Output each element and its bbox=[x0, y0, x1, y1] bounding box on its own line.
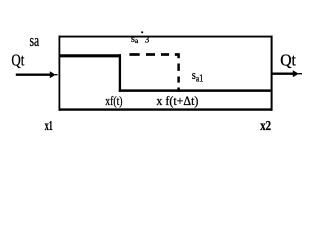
svg-text:Qt: Qt bbox=[11, 51, 24, 70]
dashed vertical line at xf(t+dt) bbox=[177, 53, 180, 91]
svg-text:Qt: Qt bbox=[280, 51, 296, 70]
svg-text:sa: sa bbox=[131, 34, 139, 45]
svg-text:3: 3 bbox=[145, 35, 150, 45]
svg-text:x2: x2 bbox=[260, 118, 271, 133]
outlet arrow bbox=[272, 70, 302, 77]
control volume box bbox=[59, 36, 273, 111]
svg-text:xf(t): xf(t) bbox=[105, 93, 122, 108]
dot over label sa,3 bbox=[141, 31, 143, 33]
svg-text:x f(t+Δt): x f(t+Δt) bbox=[156, 93, 198, 108]
svg-text:x1: x1 bbox=[45, 118, 53, 133]
upper step line (solid thick, saturated zone at time t) bbox=[59, 54, 121, 57]
lower step line (level s_a1) bbox=[119, 89, 271, 92]
svg-text:sa: sa bbox=[30, 31, 40, 50]
front vertical line at xf(t) bbox=[119, 54, 121, 92]
dashed horizontal line (front position at t+dt) bbox=[129, 53, 179, 56]
inlet arrow bbox=[16, 71, 58, 78]
